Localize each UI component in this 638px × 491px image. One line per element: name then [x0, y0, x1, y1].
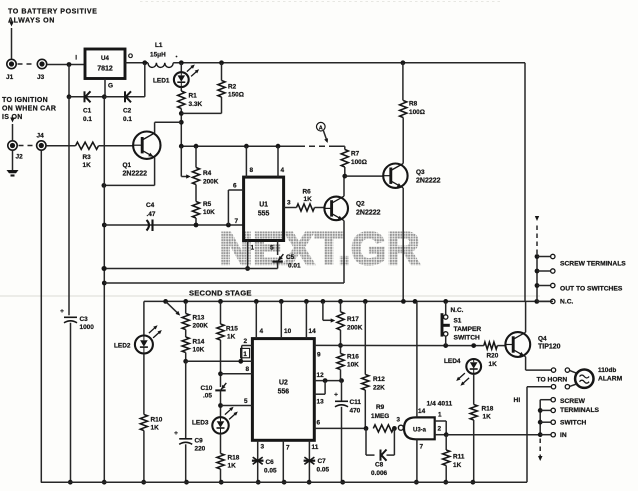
ground symbol below J2: [7, 151, 19, 176]
arrow up from J1: [9, 22, 14, 59]
svg-text:6: 6: [317, 420, 321, 427]
svg-text:1: 1: [243, 351, 247, 358]
label 1/4 4011: [427, 401, 453, 408]
U2 pin 2 wire: [242, 338, 253, 361]
U2 pin 6 wire: [314, 420, 366, 429]
wire gate output line: [446, 434, 540, 436]
svg-text:11: 11: [312, 444, 319, 451]
wire ground line first stage: [102, 266, 278, 271]
svg-text:SCREW: SCREW: [560, 398, 586, 405]
svg-text:C7: C7: [318, 458, 327, 465]
svg-text:C9: C9: [195, 438, 204, 445]
svg-text:N.C.: N.C.: [560, 299, 574, 306]
svg-text:ALWAYS ON: ALWAYS ON: [8, 17, 55, 25]
svg-text:J2: J2: [16, 154, 24, 161]
R13 wiper arrow: [166, 301, 181, 315]
U3-a pin 14 wire: [417, 301, 426, 417]
svg-text:5: 5: [270, 245, 274, 252]
wire alarm low side to ground: [527, 387, 551, 483]
label SCREW (bottom): [560, 398, 586, 405]
svg-text:470: 470: [350, 408, 361, 415]
svg-text:R18: R18: [228, 455, 240, 462]
svg-text:0.01: 0.01: [288, 263, 301, 270]
connector J4: [37, 133, 47, 151]
svg-text:Q1: Q1: [123, 162, 132, 169]
transistor Q2 2N2222: [324, 176, 380, 283]
screw terminal row (bottom 1): [540, 398, 555, 402]
LED LED4: [444, 358, 481, 386]
svg-text:200K: 200K: [203, 178, 219, 185]
svg-text:1000: 1000: [80, 324, 95, 331]
svg-text:R13: R13: [193, 315, 205, 322]
svg-text:R2: R2: [228, 84, 237, 91]
svg-text:220: 220: [195, 446, 206, 453]
svg-text:C8: C8: [375, 462, 384, 469]
capacitor C8 loop: [366, 428, 394, 477]
horn terminal circles row2: [551, 384, 576, 389]
switch-in terminal column: [538, 400, 543, 437]
svg-text:1MEG: 1MEG: [371, 413, 389, 420]
U2 pin 3 wire and capacitor C6: [252, 440, 277, 484]
svg-text:.47: .47: [147, 211, 156, 218]
U1 pin 5 wire and capacitor C5: [270, 241, 301, 270]
capacitor C4: [104, 202, 244, 231]
capacitor C9: [174, 361, 206, 484]
dashed arrow down (to ground): [538, 439, 543, 462]
alarm 110db: [575, 367, 622, 388]
svg-text:C10: C10: [201, 385, 213, 392]
wire J1-J3 dashed: [18, 63, 36, 65]
svg-text:10: 10: [284, 328, 292, 335]
trimmer resistor R4 200K: [192, 146, 218, 185]
svg-text:SWITCH: SWITCH: [560, 420, 587, 427]
svg-text:R14: R14: [193, 339, 205, 346]
faint horizontal scan fold line: [0, 295, 540, 297]
svg-text:.05: .05: [203, 393, 212, 400]
timer U1 555: [244, 177, 284, 240]
svg-text:1K: 1K: [489, 361, 498, 368]
resistor R18 (left): [217, 434, 240, 485]
svg-text:R6: R6: [303, 189, 312, 196]
resistor R12: [362, 375, 386, 431]
svg-text:2N2222: 2N2222: [356, 210, 381, 217]
svg-text:TAMPER: TAMPER: [454, 326, 482, 333]
wire Q1 emitter bus crossing: [103, 184, 105, 187]
svg-text:U1: U1: [259, 202, 268, 209]
wire R7 node to Q3 base: [345, 175, 383, 177]
inductor L1: [148, 42, 177, 67]
resistor R8: [400, 63, 425, 118]
U2 pin 1 wire: [186, 348, 253, 363]
svg-text:ON WHEN CAR: ON WHEN CAR: [2, 106, 56, 113]
connector J2: [8, 141, 23, 161]
svg-text:1K: 1K: [151, 425, 160, 432]
svg-text:R7: R7: [351, 151, 360, 158]
svg-text:14: 14: [309, 328, 317, 335]
svg-text:1K: 1K: [304, 196, 313, 203]
R17 wiper arrow: [323, 301, 335, 322]
svg-text:150Ω: 150Ω: [228, 92, 244, 99]
label TO IGNITION / ON WHEN CAR / IS ON: [2, 97, 56, 121]
transistor Q3 2N2222: [383, 118, 440, 302]
resistor R11: [443, 435, 465, 485]
label SCREW TERMINALS (top): [560, 261, 626, 268]
svg-text:O: O: [128, 53, 133, 60]
svg-text:10K: 10K: [347, 362, 359, 369]
svg-text:9: 9: [317, 352, 321, 359]
U1 pin 4 wire: [278, 146, 285, 177]
wire U2 pin9 to Q4 base line: [314, 343, 484, 348]
svg-text:J1: J1: [6, 74, 14, 81]
U1 pin 6-7 tie loop: [228, 183, 243, 226]
svg-text:Q4: Q4: [538, 336, 547, 343]
resistor R15: [217, 301, 238, 340]
U3-a pin 2 wire: [435, 426, 449, 438]
svg-text:J4: J4: [37, 133, 45, 140]
svg-text:HI: HI: [514, 397, 521, 404]
U2 pin 14 wire: [306, 301, 316, 338]
timer U2 556: [252, 339, 314, 441]
U2 pin 11 wire and capacitor C7: [304, 440, 330, 484]
svg-text:1K: 1K: [83, 162, 92, 169]
wire R17 to pin9 line: [338, 330, 343, 354]
U2 pin 10 wire: [281, 301, 291, 338]
svg-text:7: 7: [235, 218, 239, 225]
resistor R10: [140, 354, 162, 485]
screw terminal row 1: [537, 254, 555, 258]
svg-text:2: 2: [438, 426, 442, 433]
U1 pin 8 wire: [246, 146, 253, 177]
svg-text:R18: R18: [482, 406, 494, 413]
svg-text:1: 1: [438, 412, 442, 419]
out to switches terminal: [537, 283, 555, 287]
svg-text:R5: R5: [203, 201, 212, 208]
wire terminal column: [535, 254, 540, 301]
svg-text:1K: 1K: [453, 462, 462, 469]
svg-text:0.1: 0.1: [83, 116, 92, 123]
wire Q1 collector to R1 node: [155, 121, 182, 123]
wire U4 ground pin: [104, 79, 106, 97]
svg-text:6: 6: [233, 183, 237, 190]
svg-text:R10: R10: [151, 417, 163, 424]
label HI: [514, 397, 521, 404]
svg-text:LED4: LED4: [444, 358, 461, 365]
svg-text:R11: R11: [453, 454, 465, 461]
svg-text:SECOND STAGE: SECOND STAGE: [189, 289, 252, 298]
dashed arrow up (to +12): [535, 216, 539, 254]
resistor R3: [76, 142, 99, 169]
svg-text:SCREW TERMINALS: SCREW TERMINALS: [560, 261, 626, 268]
svg-text:L1: L1: [155, 42, 163, 49]
resistor R5: [192, 185, 215, 226]
svg-text:+: +: [60, 308, 64, 315]
U1 pin 1 wire: [245, 241, 254, 271]
connector J3: [37, 59, 47, 81]
svg-text:A: A: [319, 125, 323, 131]
resistor R18 (right): [470, 374, 494, 485]
svg-text:R1: R1: [189, 93, 198, 100]
U1 pin 3 wire: [284, 200, 297, 208]
label IN: [560, 432, 567, 439]
svg-text:4: 4: [281, 167, 285, 174]
switch terminal row: [540, 420, 555, 424]
wire J4 down to ground rail: [40, 151, 42, 483]
in terminal row: [540, 433, 555, 437]
svg-text:C2: C2: [123, 108, 132, 115]
capacitor C3: [60, 308, 94, 485]
svg-text:0.1: 0.1: [123, 116, 132, 123]
wire Q2 emitter row: [104, 282, 344, 284]
svg-text:2N2222: 2N2222: [416, 178, 441, 185]
wire right +12 rail down: [524, 63, 526, 302]
resistor R20: [484, 342, 499, 368]
svg-text:13: 13: [317, 399, 325, 406]
svg-text:100Ω: 100Ω: [409, 109, 425, 116]
U2 pin 8 wire: [221, 366, 253, 374]
svg-text:1: 1: [251, 245, 255, 252]
svg-text:R3: R3: [83, 154, 92, 161]
svg-text:N.C.: N.C.: [451, 307, 464, 314]
svg-text:2: 2: [244, 338, 248, 345]
wire C2 node down (ground bus): [102, 97, 107, 485]
svg-text:TERMINALS: TERMINALS: [560, 407, 600, 414]
switch S1 tamper: [442, 301, 481, 345]
svg-text:110db: 110db: [598, 367, 616, 374]
resistor R7: [341, 146, 367, 178]
R12 chain: [364, 301, 366, 374]
arrow up from J2: [10, 118, 15, 141]
U4 pin label I: [75, 55, 77, 62]
svg-text:2N2222: 2N2222: [123, 171, 148, 178]
svg-text:10K: 10K: [193, 347, 205, 354]
watermark NEXT.GR: [220, 223, 421, 274]
svg-text:C1: C1: [83, 108, 92, 115]
svg-text:LED3: LED3: [192, 420, 209, 427]
transistor Q4 TIP120: [505, 301, 560, 370]
R4 wiper arrow: [181, 146, 191, 178]
resistor R14: [182, 330, 205, 364]
svg-text:1/4 4011: 1/4 4011: [427, 401, 453, 408]
svg-text:556: 556: [278, 388, 290, 395]
label SWITCH: [560, 420, 587, 427]
wire C1 node down to C3: [68, 97, 70, 315]
svg-text:100Ω: 100Ω: [351, 159, 367, 166]
NAND gate U3-a: [397, 417, 435, 440]
capacitor C11: [334, 381, 361, 485]
svg-text:7812: 7812: [97, 66, 113, 73]
label OUT TO SWITCHES: [560, 286, 623, 293]
wire J3 to U4 input: [47, 62, 85, 67]
label SECOND STAGE: [189, 289, 252, 298]
U2 pin 4 wire: [256, 301, 263, 338]
svg-text:8: 8: [246, 366, 250, 373]
resistor R9: [371, 404, 397, 432]
svg-text:200K: 200K: [193, 323, 209, 330]
transistor Q1 2N2222: [123, 122, 161, 185]
svg-text:R16: R16: [347, 354, 359, 361]
svg-text:1K: 1K: [483, 414, 492, 421]
svg-text:C11: C11: [350, 399, 362, 406]
node A: [317, 122, 329, 143]
svg-text:C5: C5: [286, 254, 295, 261]
label TO BATTERY POSITIVE / ALWAYS ON: [8, 8, 97, 25]
U2 pin 7 wire: [282, 440, 290, 484]
svg-text:15μH: 15μH: [150, 52, 166, 59]
label TERMINALS (bottom): [560, 407, 600, 414]
svg-text:5: 5: [244, 398, 248, 405]
wire V+ rail first stage: [179, 144, 299, 149]
label N.C.: [560, 299, 574, 306]
wire R3 to Q1 base: [99, 145, 133, 147]
U2 pin 5 wire: [221, 398, 253, 406]
svg-text:22K: 22K: [373, 384, 385, 391]
wire U4 output: [125, 60, 148, 65]
svg-text:7: 7: [286, 445, 290, 452]
svg-text:R4: R4: [203, 170, 212, 177]
wire Q1 emitter to ground line: [102, 183, 155, 188]
svg-text:R17: R17: [347, 316, 359, 323]
wire J3 node down to C1: [67, 65, 72, 100]
wire second stage V+ rail: [144, 299, 553, 304]
LED LED2: [114, 301, 162, 353]
resistor R16: [337, 354, 359, 381]
svg-text:TO BATTERY POSITIVE: TO BATTERY POSITIVE: [8, 8, 97, 16]
wire C2 right riser: [144, 63, 146, 97]
svg-text:3: 3: [397, 417, 401, 424]
svg-text:7: 7: [420, 444, 424, 451]
svg-text:12: 12: [317, 372, 325, 379]
svg-text:0.006: 0.006: [371, 470, 388, 477]
svg-text:0.05: 0.05: [264, 468, 277, 475]
svg-text:U4: U4: [101, 55, 109, 62]
svg-text:S1: S1: [454, 318, 462, 325]
svg-text:+: +: [174, 430, 178, 437]
svg-text:+: +: [334, 392, 338, 399]
regulator U4 7812: [85, 49, 133, 90]
svg-text:Q2: Q2: [356, 201, 365, 208]
resistor R6: [297, 189, 315, 212]
svg-text:R12: R12: [373, 376, 385, 383]
svg-text:J3: J3: [37, 74, 45, 81]
svg-text:3: 3: [287, 200, 291, 207]
screw terminal row 2: [537, 269, 555, 273]
svg-text:10K: 10K: [203, 209, 215, 216]
svg-text:C4: C4: [146, 202, 155, 209]
svg-text:R20: R20: [487, 353, 499, 360]
label TO HORN: [537, 377, 568, 384]
horn terminal circles row1: [551, 368, 576, 373]
svg-text:R9: R9: [376, 404, 385, 411]
svg-text:I: I: [75, 55, 77, 62]
svg-text:TIP120: TIP120: [538, 344, 561, 351]
wire R20 to Q4 base: [497, 345, 505, 347]
svg-text:U2: U2: [279, 380, 288, 387]
N.C. terminal: [537, 299, 555, 303]
U2 pin 13 tie loop: [314, 381, 325, 406]
svg-text:OUT TO SWITCHES: OUT TO SWITCHES: [560, 286, 623, 293]
svg-text:SWITCH: SWITCH: [454, 335, 481, 342]
wire R15 to pin8 node: [218, 340, 223, 387]
svg-text:TO HORN: TO HORN: [537, 377, 568, 384]
svg-text:C3: C3: [80, 316, 89, 323]
wire J4 to R3: [47, 145, 76, 147]
svg-text:LED1: LED1: [153, 78, 170, 85]
svg-text:4: 4: [260, 328, 264, 335]
svg-text:1K: 1K: [227, 334, 236, 341]
U3-a pin 7 wire: [414, 439, 424, 484]
svg-text:R15: R15: [226, 326, 238, 333]
LED LED3: [192, 407, 238, 434]
svg-text:8: 8: [250, 167, 254, 174]
svg-text:14: 14: [418, 408, 426, 415]
svg-text:ALARM: ALARM: [598, 376, 623, 383]
LED LED1: [153, 63, 199, 87]
wire ground rail bottom: [41, 481, 527, 483]
svg-text:555: 555: [258, 211, 270, 218]
svg-text:3.3K: 3.3K: [189, 101, 203, 108]
svg-text:LED2: LED2: [114, 343, 131, 350]
svg-text:U3-a: U3-a: [413, 428, 427, 434]
resistor R2: [181, 63, 244, 114]
svg-text:G: G: [108, 83, 113, 90]
capacitor C2: [104, 91, 145, 123]
svg-text:1K: 1K: [228, 463, 237, 470]
wire top rail to +12 corner: [173, 60, 525, 65]
connector J1: [6, 59, 16, 81]
trimmer resistor R13 200K: [182, 301, 208, 329]
svg-text:3: 3: [261, 444, 265, 451]
resistor R1: [178, 87, 203, 146]
U2 pin 12 wire: [314, 372, 344, 383]
capacitor C1: [69, 91, 107, 123]
wire R6 to Q2 base: [315, 207, 325, 209]
wire C10 to LED3: [218, 390, 223, 417]
svg-text:C6: C6: [266, 459, 275, 466]
top edge faint scan line: [140, 1, 500, 3]
screw terminal row (bottom 2): [540, 408, 555, 412]
U3-a pin 1 wire: [435, 412, 447, 435]
capacitor C10: [201, 383, 227, 400]
wire Q4 emitter to horn terminal: [526, 369, 552, 371]
svg-text:TO IGNITION: TO IGNITION: [2, 97, 48, 104]
svg-text:R8: R8: [409, 101, 418, 108]
wire J2-J4 dashed: [19, 145, 36, 147]
trimmer resistor R17 200K: [337, 301, 363, 331]
svg-text:200K: 200K: [347, 325, 363, 332]
svg-text:IN: IN: [560, 432, 567, 439]
U2 pin 9 label: [317, 352, 321, 359]
svg-text:0.05: 0.05: [317, 467, 330, 474]
wire dashed segment to node A: [299, 145, 345, 147]
svg-text:Q3: Q3: [416, 169, 425, 176]
